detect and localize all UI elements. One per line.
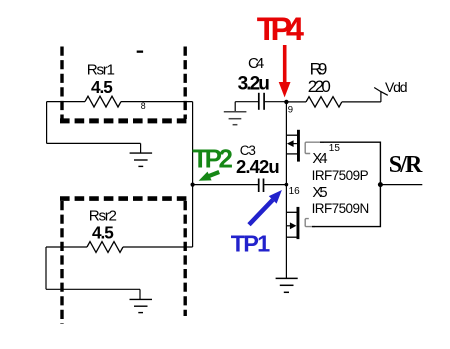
capacitor C3 — [259, 179, 264, 193]
svg-text:2.42u: 2.42u — [236, 156, 280, 177]
svg-text:IRF7509N: IRF7509N — [312, 201, 370, 216]
X4 channel bar — [297, 130, 300, 162]
capacitor C4 — [259, 93, 264, 110]
dashed enclosure box B (around Rsr2) — [60, 199, 188, 324]
svg-text:4.5: 4.5 — [91, 77, 113, 97]
X5 channel bar — [297, 207, 300, 239]
resistor R9 — [306, 97, 342, 107]
wire S/R output — [380, 184, 422, 186]
IC box outline — [312, 142, 380, 226]
wire R9 to Vdd corner — [342, 101, 381, 103]
pin 16 hook (gray) — [305, 219, 315, 227]
svg-text:X5: X5 — [312, 185, 327, 201]
wire Rsr2 left lead — [46, 246, 87, 248]
node TP2 — [191, 183, 195, 187]
svg-text:220: 220 — [308, 77, 331, 96]
svg-text:TP2: TP2 — [192, 144, 233, 174]
pin 15 hook (gray) — [305, 142, 324, 153]
TP1 blue arrow — [249, 190, 282, 225]
node 9 — [284, 100, 288, 104]
X5 drain lead — [286, 211, 297, 213]
wire node9 down to PMOS — [285, 102, 287, 279]
svg-text:IRF7509P: IRF7509P — [312, 168, 369, 183]
svg-text:Rsr1: Rsr1 — [87, 61, 115, 78]
transistor X4 PMOS — [286, 130, 300, 162]
svg-text:TP1: TP1 — [231, 230, 270, 256]
ground 3 (below X5) — [276, 278, 298, 292]
wire to ground 2 — [46, 288, 140, 290]
Vdd terminal tick — [374, 88, 388, 96]
svg-text:15: 15 — [329, 143, 341, 154]
X4 arrow (points left) — [287, 140, 294, 147]
svg-text:8: 8 — [141, 101, 146, 111]
transistor X5 NMOS — [286, 207, 299, 239]
ground 2 stub — [139, 289, 141, 299]
wire Rsr2 right lead — [123, 246, 193, 248]
svg-text:C4: C4 — [248, 55, 264, 72]
svg-text:X4: X4 — [312, 151, 327, 167]
node S/R output — [378, 182, 383, 187]
wire Rsr1 right lead to node — [121, 101, 193, 103]
wire node9 to R9 — [286, 101, 306, 103]
svg-text:Vdd: Vdd — [385, 79, 408, 95]
ground 4 stub (left of C4) — [234, 102, 236, 112]
svg-text:R9: R9 — [310, 60, 328, 79]
wire Rsr2 left down — [45, 247, 47, 289]
svg-text:16: 16 — [289, 186, 301, 197]
svg-text:9: 9 — [288, 105, 293, 116]
resistor Rsr1 — [85, 96, 121, 107]
TP2 green arrow — [199, 172, 220, 181]
wire C4 right lead — [265, 101, 287, 103]
wire Rsr1 left lead — [47, 101, 85, 103]
ground 1 stub — [140, 143, 142, 153]
svg-text:4.5: 4.5 — [92, 223, 114, 243]
X5 source lead — [286, 236, 297, 238]
wire TP2 node to C3 — [193, 184, 258, 186]
svg-text:TP4: TP4 — [257, 11, 304, 47]
wire C4 left lead — [235, 101, 258, 103]
svg-text:3.2u: 3.2u — [238, 73, 270, 94]
dashed enclosure box A (around Rsr1) — [60, 47, 187, 121]
wire to ground 1 — [47, 142, 141, 144]
ground 1 — [130, 153, 153, 166]
wire main left vertical (Rsr1 right to Rsr2 right) — [192, 102, 194, 247]
ground 4 — [224, 112, 247, 125]
X4 drain lead — [286, 134, 297, 136]
node 16 — [285, 183, 289, 187]
X4 source lead — [286, 153, 297, 155]
X5 arrow (points right) — [290, 222, 297, 229]
wire Vdd riser — [380, 91, 382, 102]
wire Rsr1 left down — [46, 102, 48, 144]
ground 2 — [130, 299, 153, 312]
resistor Rsr2 — [87, 242, 123, 253]
TP4 red arrow — [279, 45, 291, 97]
svg-text:S/R: S/R — [389, 152, 423, 178]
wire C3 to node 16 — [264, 184, 286, 186]
